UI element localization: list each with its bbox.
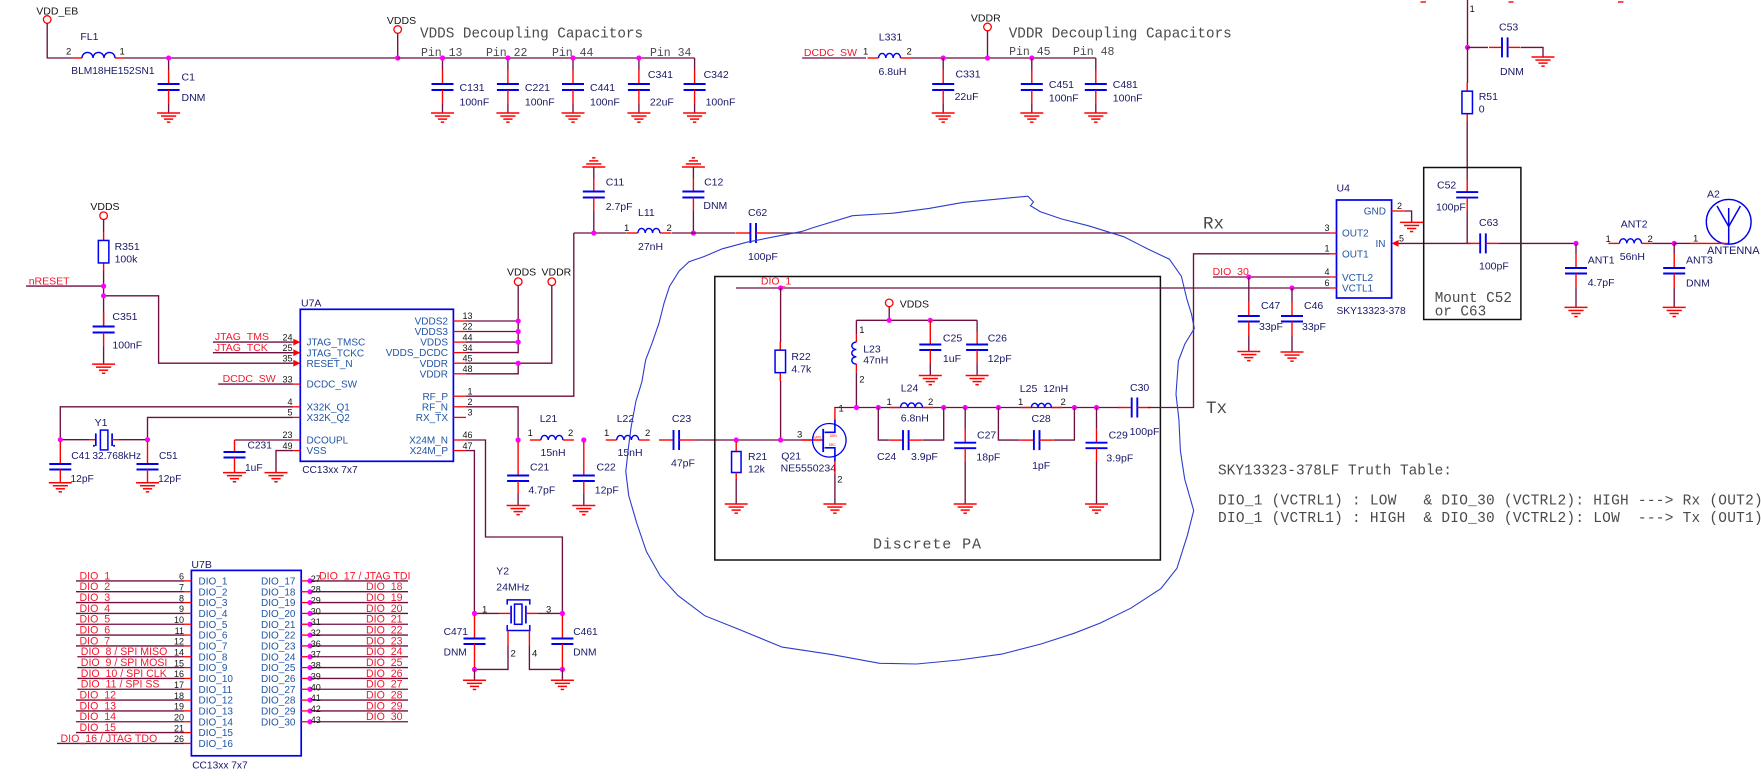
svg-text:38: 38 (311, 661, 321, 671)
pin 3 RX_TX stub (453, 416, 466, 418)
svg-text:11: 11 (175, 626, 184, 636)
svg-text:L11: L11 (638, 207, 655, 219)
wire VDDS riser (466, 286, 518, 353)
svg-text:DIO_1 (VCTRL1) : LOW & DIO_3: DIO_1 (VCTRL1) : LOW & DIO_30 (VCTRL2): … (1218, 494, 1761, 510)
svg-text:NE5550234: NE5550234 (781, 462, 837, 474)
svg-text:1uF: 1uF (943, 353, 961, 365)
svg-text:47: 47 (462, 441, 472, 451)
svg-text:C22: C22 (597, 462, 616, 474)
svg-text:DIO_26: DIO_26 (261, 674, 296, 685)
svg-text:2: 2 (66, 47, 71, 58)
junction (778, 437, 783, 442)
svg-text:100nF: 100nF (112, 340, 142, 352)
svg-text:56nH: 56nH (1620, 251, 1645, 263)
pin 5 X32K_Q2 stub (293, 416, 300, 418)
svg-text:33pF: 33pF (1302, 321, 1326, 333)
svg-text:6: 6 (179, 572, 184, 582)
junction (1573, 241, 1578, 246)
pin 49 VSS stub (293, 450, 300, 452)
svg-text:SKY13323-378: SKY13323-378 (1337, 306, 1406, 317)
pin 24 JTAG_TMSC stub (293, 341, 300, 343)
svg-text:3: 3 (1324, 223, 1329, 233)
wire (1653, 242, 1675, 244)
ground (1565, 306, 1588, 308)
svg-text:2: 2 (907, 47, 912, 58)
svg-text:OUT2: OUT2 (1342, 229, 1369, 240)
svg-text:37: 37 (311, 650, 321, 660)
ground (725, 503, 748, 505)
svg-text:JTAG_TMSC: JTAG_TMSC (307, 338, 366, 349)
wire VDDS3 pin wire (466, 331, 518, 333)
svg-text:C11: C11 (606, 177, 625, 189)
svg-text:VDD_EB: VDD_EB (36, 6, 78, 18)
svg-text:C131: C131 (460, 82, 485, 94)
svg-text:Y2: Y2 (496, 566, 509, 578)
svg-text:DCOUPL: DCOUPL (307, 436, 349, 447)
svg-text:IN: IN (1376, 239, 1386, 250)
svg-text:C221: C221 (525, 82, 550, 94)
svg-text:2: 2 (645, 428, 650, 439)
ground (954, 503, 977, 505)
svg-text:C12: C12 (704, 177, 723, 189)
svg-text:31: 31 (311, 617, 321, 627)
svg-text:SKY13323-378LF Truth Table:: SKY13323-378LF Truth Table: (1218, 464, 1452, 480)
svg-text:100pF: 100pF (1130, 426, 1160, 438)
svg-text:ANTENNA: ANTENNA (1707, 245, 1760, 257)
svg-text:DIO_16: DIO_16 (199, 739, 234, 750)
red mark (1509, 1, 1514, 3)
svg-text:DNM: DNM (444, 647, 467, 658)
svg-text:3.9pF: 3.9pF (911, 451, 938, 463)
ground (1237, 351, 1260, 353)
svg-text:1uF: 1uF (245, 463, 263, 474)
svg-text:DIO_14: DIO_14 (199, 717, 234, 728)
ground (92, 363, 115, 365)
svg-text:1: 1 (839, 404, 844, 415)
svg-text:A2: A2 (1707, 189, 1720, 201)
svg-text:ANT2: ANT2 (1621, 219, 1648, 231)
svg-text:RX_TX: RX_TX (416, 413, 449, 424)
svg-text:2: 2 (1397, 201, 1402, 211)
svg-text:BLM18HE152SN1: BLM18HE152SN1 (71, 66, 155, 77)
junction (1672, 241, 1677, 246)
pin 33 DCDC_SW stub (293, 383, 300, 385)
svg-text:DIO_1 (VCTRL1) : HIGH & DIO_3: DIO_1 (VCTRL1) : HIGH & DIO_30 (VCTRL2):… (1218, 511, 1761, 527)
svg-text:DIO_21: DIO_21 (261, 620, 296, 631)
pin 2 GND stub (1392, 210, 1405, 212)
svg-text:2.7pF: 2.7pF (606, 201, 633, 213)
ground (496, 112, 519, 114)
junction pin44 (516, 340, 521, 345)
wire VSS route (276, 451, 293, 473)
svg-text:C351: C351 (112, 311, 137, 323)
svg-text:13: 13 (462, 311, 472, 321)
svg-text:CC13xx 7x7: CC13xx 7x7 (302, 465, 358, 476)
svg-text:C461: C461 (573, 627, 598, 638)
svg-text:C41: C41 (71, 451, 90, 462)
svg-text:VDDR Decoupling Capacitors: VDDR Decoupling Capacitors (1009, 27, 1232, 43)
junction (854, 405, 859, 410)
svg-text:C471: C471 (444, 627, 469, 638)
wire VDDS rail (398, 57, 695, 59)
svg-text:VDDS: VDDS (420, 338, 448, 349)
wire JTAG_TMS (213, 341, 293, 343)
svg-text:X24M_P: X24M_P (410, 446, 449, 457)
pin 45 VDDR45 stub (453, 362, 466, 364)
svg-text:DIO_28: DIO_28 (261, 696, 296, 707)
svg-text:C231: C231 (248, 441, 273, 452)
svg-text:C331: C331 (956, 69, 981, 81)
svg-text:22: 22 (462, 322, 472, 332)
svg-text:DIO_2: DIO_2 (199, 587, 228, 598)
wire X32K_Q2 route (148, 417, 294, 439)
svg-text:2: 2 (467, 397, 472, 407)
svg-text:DIO_12: DIO_12 (199, 696, 234, 707)
svg-text:100nF: 100nF (460, 97, 490, 109)
wire (1674, 242, 1690, 244)
svg-text:DIO_23: DIO_23 (261, 642, 296, 653)
node C53 junction (1465, 45, 1470, 50)
junction Y2 pin4 gnd (560, 667, 565, 672)
svg-text:C341: C341 (648, 69, 673, 81)
svg-text:100pF: 100pF (1479, 261, 1509, 273)
wire (1466, 122, 1468, 181)
junction pin22 (516, 329, 521, 334)
svg-text:18pF: 18pF (976, 451, 1000, 463)
ground (823, 503, 846, 505)
svg-text:C26: C26 (988, 333, 1007, 345)
wire (1466, 211, 1468, 243)
svg-text:VCTL2: VCTL2 (1342, 273, 1374, 284)
svg-text:DIO_15: DIO_15 (199, 728, 234, 739)
ground (inverted) (582, 166, 605, 168)
svg-text:100nF: 100nF (525, 97, 555, 109)
svg-text:C25: C25 (943, 333, 962, 345)
ground (1084, 112, 1107, 114)
svg-text:DIO_27: DIO_27 (261, 685, 296, 696)
svg-text:VDDR: VDDR (971, 13, 1001, 25)
input arrow (293, 339, 300, 346)
pin 25 JTAG_TCKC stub (293, 352, 300, 354)
svg-text:VDDS: VDDS (387, 15, 416, 27)
wire drain line (835, 407, 1121, 410)
ground (463, 679, 486, 681)
svg-text:U7B: U7B (191, 559, 211, 571)
ground (223, 472, 246, 474)
pin 1 OUT1 stub (1330, 253, 1337, 255)
pin 48 VDDR48 stub (453, 373, 466, 375)
svg-text:2: 2 (568, 428, 573, 439)
svg-text:DNM: DNM (1500, 66, 1524, 78)
pin 1 RF_P stub (453, 395, 466, 397)
svg-text:VDDS2: VDDS2 (415, 317, 449, 328)
svg-text:L21: L21 (540, 413, 558, 425)
svg-text:22uF: 22uF (650, 97, 674, 109)
ground (136, 482, 159, 484)
ground (932, 112, 955, 114)
wire Y2 pin2 (475, 645, 509, 669)
wire RF_P route (466, 233, 574, 396)
svg-text:26: 26 (174, 734, 184, 744)
svg-text:12pF: 12pF (595, 484, 619, 496)
svg-text:46: 46 (462, 430, 472, 440)
svg-text:34: 34 (462, 343, 472, 353)
svg-text:32.768kHz: 32.768kHz (92, 451, 141, 462)
svg-text:45: 45 (462, 353, 472, 363)
wire (397, 33, 399, 58)
svg-text:C53: C53 (1499, 22, 1518, 34)
svg-text:12: 12 (174, 637, 184, 647)
wire RF_N route (466, 407, 518, 440)
svg-text:4: 4 (532, 649, 537, 660)
svg-text:15: 15 (174, 658, 184, 668)
svg-text:100pF: 100pF (1436, 202, 1466, 214)
wire Y2 pin4 (529, 645, 562, 669)
junction (101, 284, 106, 289)
svg-text:0: 0 (1479, 104, 1485, 116)
svg-text:DNM: DNM (703, 200, 727, 212)
svg-text:100nF: 100nF (590, 97, 620, 109)
wire DIO_1 line (736, 287, 1330, 289)
svg-text:DIO_7: DIO_7 (199, 642, 228, 653)
box Mount C52 or C63 (1424, 168, 1521, 320)
svg-text:4.7k: 4.7k (791, 364, 812, 376)
svg-text:Pin 34: Pin 34 (650, 47, 692, 60)
svg-text:CC13xx 7x7: CC13xx 7x7 (192, 760, 248, 771)
svg-text:17: 17 (174, 680, 184, 690)
svg-text:12pF: 12pF (158, 474, 181, 485)
svg-text:30: 30 (311, 606, 321, 616)
wire RESET_N route (104, 296, 294, 363)
svg-text:DNM: DNM (1686, 278, 1710, 290)
svg-text:DIO_30: DIO_30 (261, 717, 296, 728)
wire (1467, 0, 1469, 47)
svg-text:C47: C47 (1261, 300, 1280, 312)
svg-text:DCDC_SW: DCDC_SW (223, 373, 276, 385)
svg-text:1: 1 (1470, 4, 1475, 15)
ground (966, 375, 989, 377)
svg-text:ANT1: ANT1 (1588, 255, 1615, 267)
svg-text:VSS: VSS (307, 446, 327, 457)
junction (691, 230, 696, 235)
ground (1085, 503, 1108, 505)
svg-text:Tx: Tx (1206, 399, 1227, 419)
svg-text:DCDC_SW: DCDC_SW (307, 380, 358, 391)
svg-text:22uF: 22uF (955, 91, 979, 103)
svg-text:DIO_11: DIO_11 (199, 685, 233, 696)
svg-text:DIO_29: DIO_29 (261, 707, 296, 718)
input arrow (293, 360, 300, 367)
junction (101, 293, 106, 298)
wire VDDR riser (466, 286, 552, 364)
junction Y2 pin1 (472, 611, 477, 616)
wire Y2 pin1 (475, 612, 500, 614)
svg-text:Q21: Q21 (781, 451, 801, 463)
svg-text:C21: C21 (530, 462, 549, 474)
wire (169, 57, 398, 59)
svg-text:DIO_17: DIO_17 (261, 577, 296, 588)
svg-text:X32K_Q2: X32K_Q2 (307, 413, 351, 424)
svg-text:C1: C1 (182, 72, 196, 84)
svg-text:C481: C481 (1113, 79, 1138, 91)
svg-text:Rx: Rx (1203, 215, 1224, 235)
svg-text:4.7pF: 4.7pF (1588, 277, 1615, 289)
junction (440, 55, 445, 60)
svg-text:DIO_22: DIO_22 (261, 631, 296, 642)
svg-text:DIO_19: DIO_19 (261, 598, 296, 609)
wire X32K_Q1 route (60, 407, 293, 440)
cloud outline (hand-drawn) (626, 196, 1195, 664)
svg-text:41: 41 (311, 693, 321, 703)
ground (507, 505, 530, 507)
junction (1289, 285, 1294, 290)
svg-text:DIO_10: DIO_10 (199, 674, 234, 685)
junction C25 (928, 318, 933, 323)
pin 2 RF_N stub (453, 406, 466, 408)
pin 3 OUT2 stub (1330, 232, 1337, 234)
pin 47 X24M_P stub (453, 450, 466, 452)
input arrow (293, 349, 300, 356)
wire DCDC_SW (218, 383, 293, 385)
svg-text:DIO_6: DIO_6 (199, 631, 228, 642)
svg-text:VDDS: VDDS (90, 201, 119, 213)
ground (1663, 306, 1686, 308)
svg-text:VCTL1: VCTL1 (1342, 284, 1374, 295)
svg-text:3: 3 (467, 408, 472, 418)
svg-text:10: 10 (174, 615, 184, 625)
wire (912, 57, 1096, 59)
svg-text:47pF: 47pF (671, 458, 695, 470)
junction pin13 (516, 318, 521, 323)
port VDDS (PA) (885, 299, 893, 307)
svg-text:DIO_1: DIO_1 (761, 276, 792, 288)
svg-text:DNM: DNM (573, 647, 596, 658)
svg-text:1: 1 (528, 428, 533, 439)
svg-text:R51: R51 (1479, 91, 1498, 103)
svg-text:DIO_30: DIO_30 (1213, 266, 1249, 278)
ground (1281, 351, 1304, 353)
svg-text:1pF: 1pF (1032, 460, 1050, 472)
svg-text:2: 2 (837, 475, 842, 486)
wire VDDS PA rail (888, 307, 890, 321)
svg-text:35: 35 (282, 353, 292, 363)
svg-text:12pF: 12pF (988, 353, 1012, 365)
svg-text:1: 1 (887, 397, 892, 408)
svg-text:C52: C52 (1437, 180, 1456, 192)
node VDDS junction (166, 55, 171, 60)
ground (572, 505, 595, 507)
svg-text:12k: 12k (748, 464, 766, 476)
svg-text:VDDR: VDDR (420, 359, 448, 370)
svg-text:Y1: Y1 (95, 417, 108, 429)
svg-text:18: 18 (174, 691, 184, 701)
pin 35 RESET_N stub (293, 362, 300, 364)
svg-text:1: 1 (1018, 397, 1023, 408)
svg-text:15nH: 15nH (541, 447, 566, 459)
svg-text:VDDR: VDDR (542, 267, 572, 279)
svg-text:25: 25 (282, 343, 292, 353)
svg-text:Pin 48: Pin 48 (1073, 46, 1115, 59)
svg-text:VDDS Decoupling Capacitors: VDDS Decoupling Capacitors (420, 27, 643, 43)
svg-text:SRC: SRC (829, 443, 836, 447)
pin 22 VDDS3 stub (453, 331, 466, 333)
ground (683, 112, 706, 114)
ground (431, 112, 454, 114)
wire DIO_30 line (1213, 276, 1330, 278)
svg-text:C441: C441 (590, 82, 615, 94)
pin 23 DCOUPL stub (293, 439, 300, 441)
junction Y2 pin2 gnd (472, 667, 477, 672)
svg-text:DIO_25: DIO_25 (261, 663, 296, 674)
svg-text:100k: 100k (115, 254, 139, 266)
svg-text:C27: C27 (977, 429, 996, 441)
svg-text:16: 16 (174, 669, 184, 679)
junction VDDS PA (887, 318, 892, 323)
wire VDDS2 pin wire (466, 320, 518, 322)
svg-text:X24M_N: X24M_N (409, 436, 448, 447)
svg-text:DIO_20: DIO_20 (261, 609, 296, 620)
wire (124, 57, 169, 59)
svg-text:44: 44 (462, 332, 472, 342)
svg-text:40: 40 (311, 682, 321, 692)
svg-text:DNM: DNM (182, 92, 206, 104)
wire to antenna (1498, 242, 1576, 244)
pin 34 VDDS_DCDC stub (453, 352, 466, 354)
ground (562, 112, 585, 114)
svg-text:C63: C63 (1479, 217, 1498, 229)
svg-text:4.7pF: 4.7pF (528, 484, 555, 496)
wire (561, 669, 563, 680)
pin 13 VDDS2 stub (453, 320, 466, 322)
junction (591, 230, 596, 235)
svg-text:5: 5 (287, 408, 292, 418)
svg-text:DIO_5: DIO_5 (199, 620, 228, 631)
junction (1246, 274, 1251, 279)
svg-text:43: 43 (311, 715, 321, 725)
svg-text:FL1: FL1 (80, 31, 98, 43)
svg-text:20: 20 (174, 712, 184, 722)
wire X24M_P route (466, 451, 474, 614)
junction (570, 55, 575, 60)
svg-text:RF_N: RF_N (422, 402, 448, 413)
svg-text:OUT1: OUT1 (1342, 249, 1369, 260)
svg-text:C30: C30 (1130, 382, 1149, 394)
svg-text:DIO_24: DIO_24 (261, 652, 296, 663)
svg-text:1: 1 (467, 386, 472, 396)
svg-text:C46: C46 (1304, 300, 1323, 312)
svg-text:1: 1 (604, 428, 609, 439)
svg-text:DCDC_SW: DCDC_SW (804, 47, 857, 59)
svg-text:1: 1 (859, 325, 864, 336)
junction (505, 55, 510, 60)
svg-text:1: 1 (863, 47, 868, 58)
svg-text:32: 32 (311, 628, 321, 638)
junction Y1 pin1 (58, 437, 63, 442)
svg-text:4: 4 (287, 397, 292, 407)
svg-text:100nF: 100nF (706, 97, 736, 109)
svg-text:42: 42 (311, 704, 321, 714)
svg-text:VDDS: VDDS (900, 298, 929, 310)
svg-text:DIO_9: DIO_9 (199, 663, 228, 674)
svg-text:1: 1 (1324, 244, 1329, 254)
wire VDDR48 pin wire (466, 363, 518, 374)
svg-text:6.8nH: 6.8nH (901, 413, 929, 425)
junction (778, 285, 783, 290)
svg-text:L24: L24 (901, 383, 919, 395)
svg-text:DIO_30: DIO_30 (366, 711, 403, 723)
ground (919, 375, 942, 377)
ground (265, 472, 288, 474)
